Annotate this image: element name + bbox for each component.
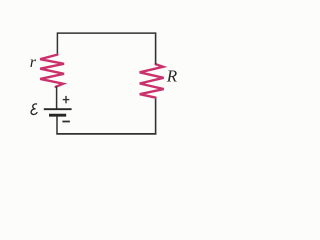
label EMF script E: [31, 104, 37, 115]
wire bottom: [56, 133, 156, 135]
wire left upper (top corner to resistor r): [56, 32, 58, 55]
battery EMF source: short negative plate: [49, 114, 66, 117]
battery EMF source: long positive plate: [44, 108, 72, 110]
svg-text:R: R: [166, 67, 178, 86]
resistor R: [140, 64, 164, 97]
wire left middle (resistor r to battery): [56, 86, 58, 108]
wire right lower (bottom corner to resistor R): [155, 97, 157, 134]
wire top: [57, 32, 155, 34]
svg-text:r: r: [30, 54, 37, 71]
wire right upper (top corner to resistor R): [155, 32, 157, 64]
plus sign: [63, 96, 70, 103]
resistor r: [40, 55, 64, 87]
wire left lower (battery to bottom corner): [56, 116, 58, 133]
minus sign: [62, 121, 70, 123]
